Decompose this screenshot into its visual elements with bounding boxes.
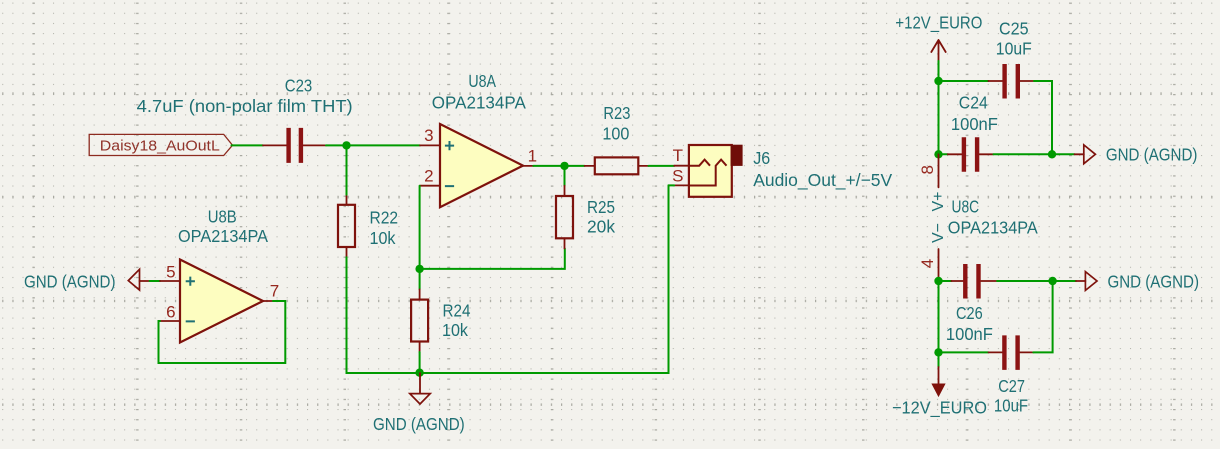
global label GND (AGND) top right — [1075, 145, 1096, 164]
wire junction to R25 — [564, 166, 566, 186]
global label GND (AGND) bottom right — [1076, 272, 1097, 291]
capacitor C27 — [989, 335, 1034, 370]
ground symbol GND — [410, 373, 430, 404]
svg-text:T: T — [673, 146, 683, 165]
svg-text:R24: R24 — [443, 301, 471, 321]
wire to C26 — [939, 280, 952, 282]
capacitor C24 — [948, 137, 994, 172]
svg-text:10uF: 10uF — [994, 396, 1028, 416]
svg-text:1: 1 — [528, 146, 537, 165]
svg-text:U8A: U8A — [468, 71, 496, 91]
junction output/R25 — [560, 162, 568, 170]
resistor R25 — [556, 186, 573, 249]
svg-text:20k: 20k — [587, 216, 615, 236]
wire C27 to GND node — [1033, 281, 1052, 352]
capacitor C25 — [988, 64, 1034, 99]
svg-text:GND (AGND): GND (AGND) — [1108, 271, 1200, 291]
resistor R23 — [585, 157, 649, 174]
svg-text:C25: C25 — [999, 18, 1029, 38]
svg-text:4.7uF (non-polar film THT): 4.7uF (non-polar film THT) — [137, 96, 353, 116]
svg-text:4: 4 — [918, 259, 937, 268]
svg-text:S: S — [672, 166, 683, 185]
svg-text:R25: R25 — [587, 197, 615, 217]
wire U8B feedback loop — [159, 301, 286, 363]
svg-text:Daisy18_AuOutL: Daisy18_AuOutL — [100, 139, 220, 155]
op-amp U8B — [160, 260, 273, 343]
resistor R24 — [411, 289, 428, 352]
svg-text:100nF: 100nF — [946, 324, 993, 344]
junction C23/R22 — [342, 141, 350, 149]
svg-text:7: 7 — [270, 282, 279, 301]
wire junction to R22 — [346, 145, 348, 194]
op-amp U8A — [420, 124, 533, 207]
junction +12V/C25 — [934, 77, 942, 85]
svg-text:Audio_Out_+/−5V: Audio_Out_+/−5V — [753, 170, 892, 191]
svg-text:10k: 10k — [442, 320, 468, 340]
wire input to C23 — [232, 144, 264, 146]
svg-text:5: 5 — [166, 263, 175, 282]
svg-text:V+: V+ — [930, 191, 947, 211]
svg-text:3: 3 — [424, 126, 433, 145]
wire GND label to pin5 — [150, 280, 160, 282]
junction rail/R24/GND — [415, 369, 423, 377]
svg-text:C24: C24 — [959, 93, 988, 113]
power symbol -12V_EURO — [932, 367, 945, 396]
svg-text:100: 100 — [602, 124, 629, 144]
wire to -12V symbol — [938, 352, 940, 367]
svg-text:+12V_EURO: +12V_EURO — [895, 12, 982, 33]
wire R22 to ground rail to jack S — [347, 185, 669, 373]
capacitor C23 — [263, 128, 326, 163]
svg-text:V−: V− — [930, 223, 947, 243]
svg-text:C23: C23 — [285, 75, 313, 95]
wire jack S stub — [669, 184, 675, 186]
junction V-/C26 — [934, 277, 942, 285]
svg-text:−12V_EURO: −12V_EURO — [892, 398, 987, 419]
junction C24/C25/GND — [1048, 150, 1056, 158]
wire C23 to pin3 — [326, 144, 420, 146]
svg-text:2: 2 — [424, 167, 433, 186]
svg-text:U8C: U8C — [952, 197, 980, 217]
net label Daisy18_AuOutL — [89, 134, 232, 155]
wire junction to R24 — [419, 269, 421, 290]
wire C26 to GND label — [997, 280, 1076, 282]
wire feedback to R25 bottom — [420, 249, 565, 269]
wire C25 to GND node — [1034, 81, 1052, 154]
svg-text:GND (AGND): GND (AGND) — [373, 414, 465, 434]
svg-text:GND (AGND): GND (AGND) — [24, 271, 116, 291]
svg-text:10k: 10k — [370, 228, 396, 248]
wire C24 to GND label — [994, 153, 1075, 155]
global label GND (AGND) left — [128, 269, 149, 290]
junction C26/C27/GND — [1048, 277, 1056, 285]
svg-text:OPA2134PA: OPA2134PA — [432, 93, 526, 113]
resistor R22 — [338, 195, 355, 258]
op-amp U8C power pins — [930, 154, 947, 281]
svg-text:GND (AGND): GND (AGND) — [1106, 145, 1198, 165]
svg-text:C27: C27 — [998, 376, 1025, 396]
wire pin2 feedback down — [419, 186, 421, 269]
svg-text:OPA2134PA: OPA2134PA — [178, 226, 268, 246]
wire pin1 to R23 — [533, 165, 584, 167]
wire +12V down — [938, 61, 940, 81]
svg-text:6: 6 — [166, 303, 175, 322]
svg-text:J6: J6 — [753, 148, 770, 168]
wire V- rail — [938, 281, 940, 352]
wire R23 to jack T — [649, 165, 675, 167]
junction feedback/R24 — [415, 265, 423, 273]
wire to C24 — [939, 153, 948, 155]
svg-text:OPA2134PA: OPA2134PA — [948, 218, 1038, 238]
svg-text:100nF: 100nF — [951, 114, 998, 134]
svg-text:C26: C26 — [956, 303, 983, 323]
svg-text:R23: R23 — [603, 103, 630, 123]
capacitor C26 — [951, 264, 997, 299]
junction C27/-12V — [934, 348, 942, 356]
wire R24 to rail — [419, 352, 421, 373]
svg-text:10uF: 10uF — [996, 39, 1032, 59]
svg-text:8: 8 — [918, 165, 937, 174]
svg-text:U8B: U8B — [208, 207, 237, 227]
wire to C27 — [939, 351, 989, 353]
wire to C25 — [939, 80, 989, 82]
svg-text:R22: R22 — [370, 208, 399, 228]
connector J6 audio jack — [674, 145, 742, 197]
power symbol +12V_EURO — [931, 40, 945, 61]
wire V+ rail — [938, 81, 940, 154]
junction V+/C24 — [934, 150, 942, 158]
